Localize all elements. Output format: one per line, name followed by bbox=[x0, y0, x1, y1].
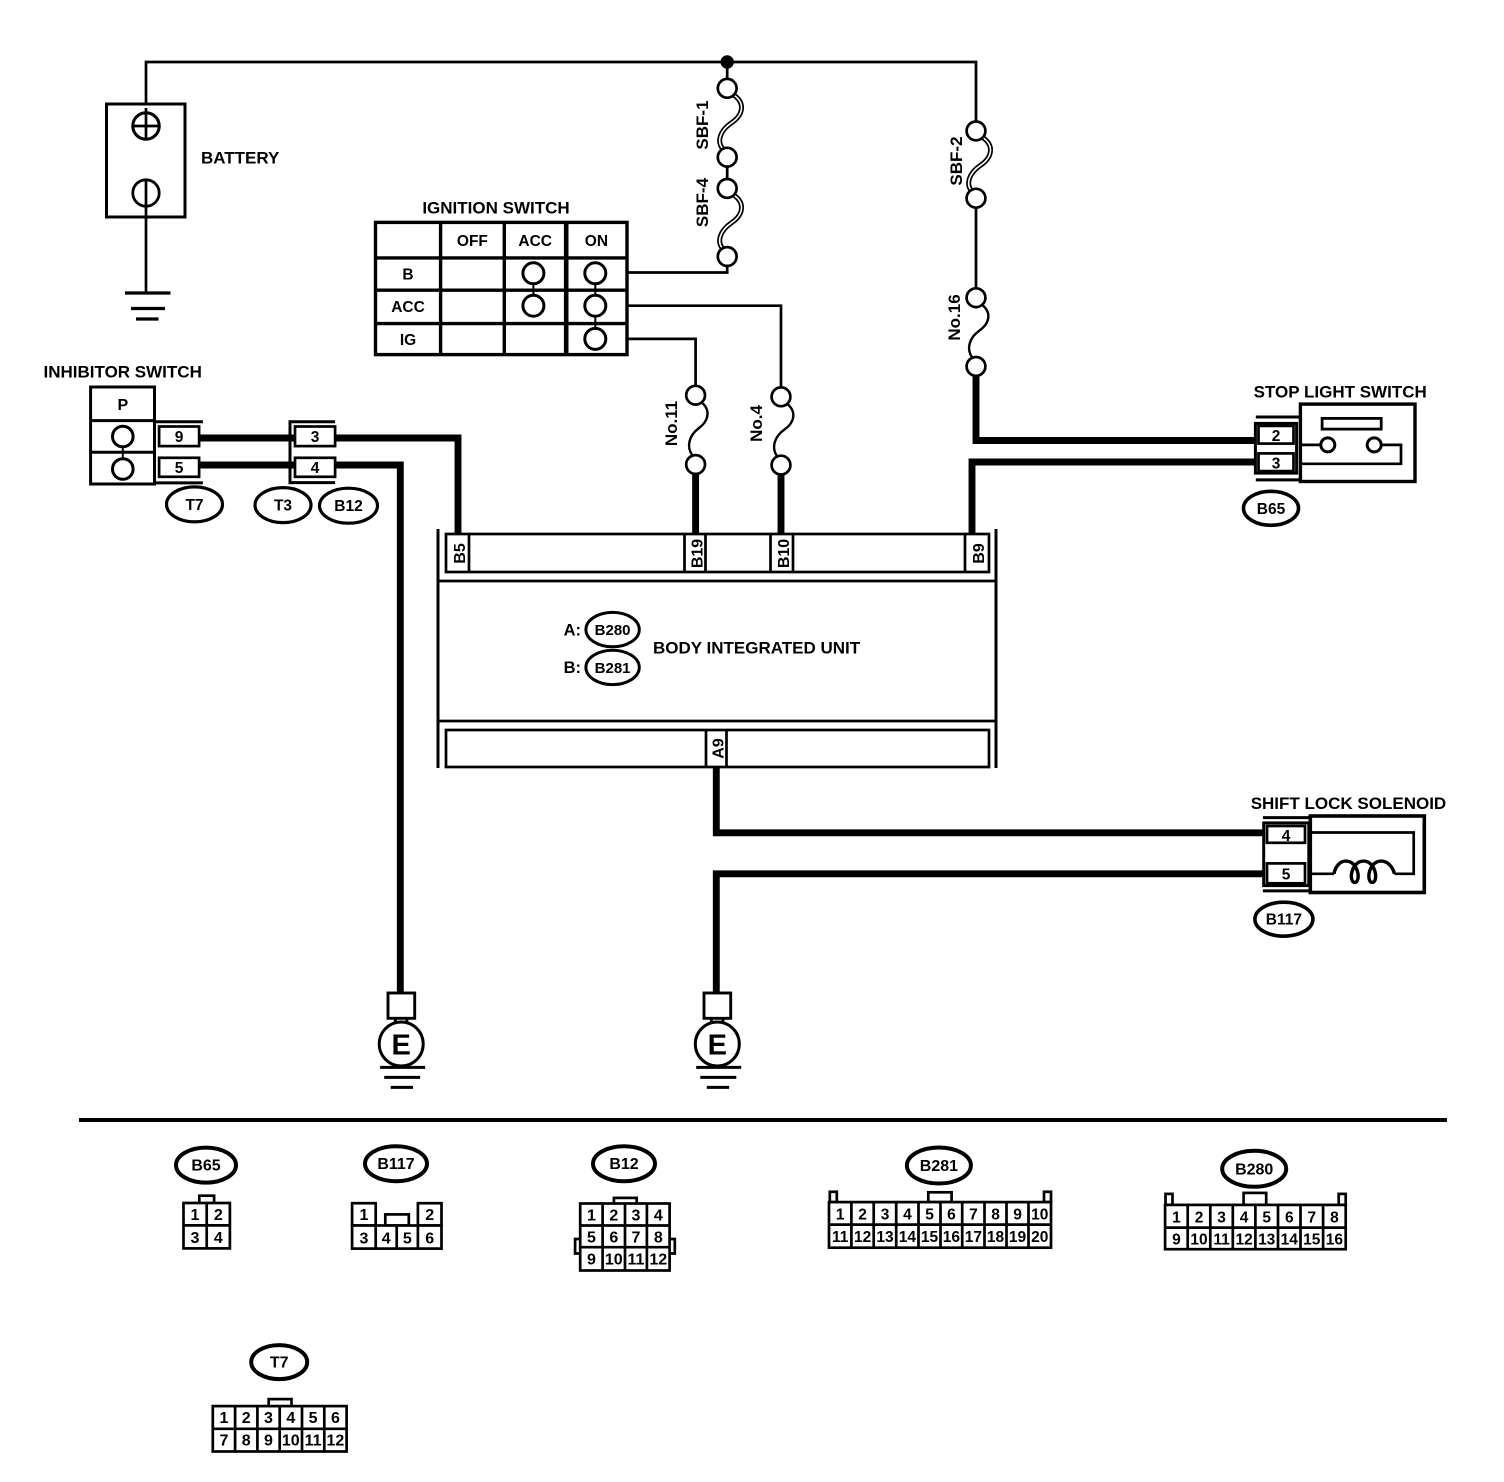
svg-text:4: 4 bbox=[382, 1231, 391, 1248]
svg-text:1: 1 bbox=[359, 1207, 368, 1224]
svg-text:14: 14 bbox=[899, 1229, 917, 1246]
svg-text:6: 6 bbox=[609, 1230, 618, 1247]
svg-text:1: 1 bbox=[191, 1207, 200, 1224]
svg-text:E: E bbox=[708, 1030, 727, 1062]
body integrated unit main box lines bbox=[438, 581, 996, 721]
connector ellipse T7 (bottom) bbox=[251, 1345, 307, 1379]
svg-text:5: 5 bbox=[1282, 867, 1291, 884]
svg-text:20: 20 bbox=[1031, 1229, 1048, 1246]
svg-text:B281: B281 bbox=[595, 660, 631, 677]
svg-text:11: 11 bbox=[1213, 1232, 1230, 1249]
svg-text:2: 2 bbox=[242, 1410, 251, 1427]
svg-text:ACC: ACC bbox=[391, 299, 425, 316]
svg-text:T3: T3 bbox=[274, 498, 292, 515]
svg-text:5: 5 bbox=[175, 460, 184, 477]
svg-text:B12: B12 bbox=[334, 498, 362, 515]
svg-text:T7: T7 bbox=[270, 1355, 289, 1372]
svg-text:9: 9 bbox=[587, 1252, 596, 1269]
svg-text:11: 11 bbox=[628, 1252, 645, 1269]
svg-text:ON: ON bbox=[585, 233, 608, 250]
svg-text:A:: A: bbox=[564, 622, 581, 640]
svg-text:B9: B9 bbox=[971, 543, 988, 564]
svg-text:4: 4 bbox=[1240, 1210, 1249, 1227]
svg-text:B5: B5 bbox=[452, 543, 469, 564]
pin B10 label bbox=[776, 539, 793, 568]
svg-text:3: 3 bbox=[311, 429, 320, 446]
svg-text:12: 12 bbox=[854, 1229, 871, 1246]
svg-text:T7: T7 bbox=[185, 497, 203, 514]
svg-text:6: 6 bbox=[425, 1231, 434, 1248]
connector pinout B117 bbox=[352, 1203, 441, 1248]
svg-text:12: 12 bbox=[1235, 1232, 1252, 1249]
wire SBF-1 to SBF-4 link bbox=[726, 165, 729, 181]
svg-text:INHIBITOR SWITCH: INHIBITOR SWITCH bbox=[44, 363, 202, 382]
svg-text:2: 2 bbox=[609, 1208, 618, 1225]
svg-text:4: 4 bbox=[1282, 828, 1291, 845]
svg-text:B65: B65 bbox=[191, 1158, 220, 1175]
svg-text:12: 12 bbox=[649, 1252, 667, 1269]
svg-text:SBF-2: SBF-2 bbox=[947, 136, 966, 185]
svg-text:8: 8 bbox=[242, 1433, 251, 1450]
wire fuse No.11 to B19 (thick) bbox=[692, 471, 699, 537]
connector T3/B12 bbox=[290, 420, 335, 484]
ignition switch table bbox=[376, 199, 628, 355]
node junction dot at top rail bbox=[721, 55, 734, 68]
connector ellipse B281 (unit) bbox=[586, 650, 639, 684]
svg-text:B281: B281 bbox=[920, 1158, 958, 1175]
connector ellipse B280 (unit) bbox=[586, 612, 639, 646]
svg-text:B117: B117 bbox=[377, 1156, 414, 1173]
connector pinout B281 bbox=[829, 1192, 1051, 1248]
svg-text:B: B bbox=[402, 267, 413, 284]
svg-text:9: 9 bbox=[175, 429, 184, 446]
svg-text:5: 5 bbox=[925, 1207, 934, 1224]
connector T7 at inhibitor switch bbox=[155, 422, 203, 483]
svg-text:3: 3 bbox=[632, 1208, 641, 1225]
fuse No.4 bbox=[747, 387, 793, 474]
ground E left bbox=[379, 993, 425, 1087]
pin B19 label bbox=[690, 539, 707, 568]
wire SBF-1 top stub from junction bbox=[726, 62, 729, 81]
fuse SBF-1 bbox=[693, 79, 742, 167]
svg-text:2: 2 bbox=[858, 1207, 867, 1224]
connector B65 pins at stop light switch bbox=[1255, 417, 1300, 480]
svg-text:BODY INTEGRATED UNIT: BODY INTEGRATED UNIT bbox=[653, 639, 861, 658]
svg-text:9: 9 bbox=[1013, 1207, 1022, 1224]
svg-text:2: 2 bbox=[1195, 1210, 1204, 1227]
svg-text:5: 5 bbox=[309, 1410, 318, 1427]
wire inhibitor pin 9 to T3 pin 3 to B5 (thick) bbox=[197, 438, 458, 537]
svg-text:5: 5 bbox=[1262, 1210, 1271, 1227]
svg-text:7: 7 bbox=[969, 1207, 978, 1224]
pin B9 label bbox=[971, 543, 988, 564]
svg-text:10: 10 bbox=[1031, 1207, 1048, 1224]
svg-text:13: 13 bbox=[876, 1229, 894, 1246]
svg-text:3: 3 bbox=[264, 1410, 273, 1427]
svg-text:IGNITION SWITCH: IGNITION SWITCH bbox=[422, 199, 569, 218]
wire SBF-4 to ignition switch B row bbox=[622, 263, 727, 273]
svg-text:11: 11 bbox=[832, 1229, 849, 1246]
svg-text:B280: B280 bbox=[595, 622, 631, 639]
fuse No.11 bbox=[662, 386, 708, 474]
svg-text:6: 6 bbox=[331, 1410, 340, 1427]
svg-text:4: 4 bbox=[903, 1207, 912, 1224]
shift lock solenoid bbox=[1251, 794, 1447, 893]
connector ellipse T3 bbox=[255, 488, 311, 523]
wire A9 to shift lock solenoid pin 4 (thick) bbox=[716, 765, 1266, 833]
body integrated unit bottom connector strip bbox=[446, 730, 989, 767]
label B: bbox=[564, 659, 581, 677]
ground below battery bbox=[125, 293, 171, 319]
svg-text:6: 6 bbox=[1285, 1210, 1294, 1227]
battery label bbox=[201, 149, 280, 168]
svg-text:11: 11 bbox=[305, 1433, 322, 1450]
svg-text:A9: A9 bbox=[711, 738, 728, 759]
svg-text:1: 1 bbox=[587, 1208, 596, 1225]
pin B5 label bbox=[452, 543, 469, 564]
svg-text:5: 5 bbox=[587, 1230, 596, 1247]
svg-text:4: 4 bbox=[311, 460, 320, 477]
svg-text:4: 4 bbox=[214, 1230, 223, 1247]
connector ellipse B65 (bottom) bbox=[176, 1148, 236, 1183]
svg-text:No.11: No.11 bbox=[662, 401, 681, 446]
fuse No.16 bbox=[945, 288, 988, 375]
connector ellipse B280 (bottom) bbox=[1222, 1151, 1286, 1187]
svg-text:1: 1 bbox=[220, 1410, 229, 1427]
wire SBF-2 to No.16 link bbox=[975, 207, 978, 290]
svg-text:3: 3 bbox=[191, 1230, 200, 1247]
connector ellipse B117 (top) bbox=[1255, 902, 1313, 936]
wire ignition ACC row to fuse No.4 bbox=[622, 306, 781, 389]
connector pinout T7 bbox=[213, 1399, 347, 1451]
svg-text:B280: B280 bbox=[1235, 1161, 1273, 1178]
svg-text:7: 7 bbox=[632, 1230, 641, 1247]
svg-text:BATTERY: BATTERY bbox=[201, 149, 280, 168]
svg-text:3: 3 bbox=[1272, 456, 1281, 473]
label A: bbox=[564, 622, 581, 640]
svg-text:8: 8 bbox=[654, 1230, 663, 1247]
connector ellipse B12 (bottom) bbox=[593, 1146, 655, 1181]
fuse SBF-2 bbox=[947, 121, 991, 207]
svg-text:9: 9 bbox=[264, 1433, 273, 1450]
svg-text:1: 1 bbox=[1172, 1210, 1181, 1227]
ground E right bbox=[695, 993, 741, 1087]
svg-text:SBF-1: SBF-1 bbox=[693, 100, 712, 149]
connector ellipse B65 (top) bbox=[1244, 491, 1299, 525]
svg-text:8: 8 bbox=[1330, 1210, 1339, 1227]
svg-text:STOP LIGHT SWITCH: STOP LIGHT SWITCH bbox=[1254, 383, 1427, 402]
separator line bbox=[79, 1118, 1447, 1122]
svg-text:ACC: ACC bbox=[518, 233, 552, 250]
svg-text:4: 4 bbox=[286, 1410, 295, 1427]
wire inhibitor pin 5 to T3 pin 4 to left ground (thick) bbox=[197, 465, 400, 995]
svg-text:10: 10 bbox=[282, 1433, 300, 1450]
wire shift lock solenoid pin 5 to right ground (thick) bbox=[716, 874, 1266, 995]
svg-text:19: 19 bbox=[1009, 1229, 1027, 1246]
svg-text:10: 10 bbox=[605, 1252, 623, 1269]
wire fuse No.4 to B10 (thick) bbox=[778, 472, 785, 537]
inhibitor switch bbox=[44, 363, 202, 485]
svg-text:7: 7 bbox=[220, 1433, 229, 1450]
body integrated unit right edge bbox=[995, 529, 998, 768]
svg-text:B10: B10 bbox=[776, 539, 793, 568]
svg-text:2: 2 bbox=[214, 1207, 223, 1224]
svg-text:B19: B19 bbox=[690, 539, 707, 568]
svg-text:No.16: No.16 bbox=[945, 294, 964, 340]
svg-text:6: 6 bbox=[947, 1207, 956, 1224]
connector pinout B12 bbox=[575, 1198, 675, 1271]
wire No.16 to stop light switch pin 2 (thick) bbox=[976, 374, 1262, 441]
svg-text:B12: B12 bbox=[609, 1156, 638, 1173]
svg-text:16: 16 bbox=[1326, 1232, 1344, 1249]
svg-text:SHIFT LOCK SOLENOID: SHIFT LOCK SOLENOID bbox=[1251, 794, 1447, 813]
svg-text:15: 15 bbox=[921, 1229, 939, 1246]
wire stop light switch pin 3 to B9 (thick) bbox=[972, 462, 1262, 537]
connector ellipse T7 bbox=[167, 487, 223, 522]
svg-text:P: P bbox=[117, 397, 128, 414]
pin A9 label bbox=[711, 738, 728, 759]
svg-text:E: E bbox=[392, 1030, 411, 1062]
svg-text:OFF: OFF bbox=[457, 233, 488, 250]
svg-text:15: 15 bbox=[1303, 1232, 1321, 1249]
wire battery positive to top rail and SBF-2 drop bbox=[146, 62, 976, 123]
svg-text:B:: B: bbox=[564, 659, 581, 677]
svg-text:2: 2 bbox=[1272, 428, 1281, 445]
svg-text:3: 3 bbox=[1217, 1210, 1226, 1227]
svg-text:10: 10 bbox=[1190, 1232, 1207, 1249]
svg-text:B117: B117 bbox=[1266, 912, 1302, 929]
svg-text:16: 16 bbox=[943, 1229, 961, 1246]
svg-text:7: 7 bbox=[1307, 1210, 1316, 1227]
svg-text:12: 12 bbox=[327, 1433, 345, 1450]
svg-text:2: 2 bbox=[425, 1207, 434, 1224]
stop light switch bbox=[1254, 383, 1427, 482]
svg-text:IG: IG bbox=[400, 332, 416, 349]
svg-text:13: 13 bbox=[1258, 1232, 1276, 1249]
svg-text:5: 5 bbox=[403, 1231, 412, 1248]
svg-text:3: 3 bbox=[359, 1231, 368, 1248]
connector ellipse B281 (bottom) bbox=[907, 1148, 971, 1184]
body integrated unit label bbox=[653, 639, 861, 658]
svg-text:8: 8 bbox=[991, 1207, 1000, 1224]
svg-text:1: 1 bbox=[836, 1207, 845, 1224]
battery bbox=[107, 104, 186, 293]
fuse SBF-4 bbox=[693, 177, 742, 265]
connector ellipse B117 (bottom) bbox=[365, 1146, 427, 1181]
svg-text:4: 4 bbox=[654, 1208, 663, 1225]
connector pinout B65 bbox=[184, 1196, 230, 1249]
svg-text:14: 14 bbox=[1281, 1232, 1299, 1249]
body integrated unit left edge bbox=[437, 529, 440, 768]
connector ellipse B12 bbox=[320, 488, 378, 523]
body integrated unit top connector strip bbox=[446, 534, 989, 572]
svg-text:18: 18 bbox=[987, 1229, 1005, 1246]
svg-text:No.4: No.4 bbox=[747, 405, 766, 442]
svg-text:3: 3 bbox=[881, 1207, 890, 1224]
svg-text:SBF-4: SBF-4 bbox=[693, 177, 712, 227]
connector pinout B280 bbox=[1165, 1193, 1346, 1249]
wire ignition IG row to fuse No.11 bbox=[622, 339, 696, 388]
svg-text:9: 9 bbox=[1172, 1232, 1181, 1249]
connector B117 pins at solenoid bbox=[1263, 818, 1310, 891]
svg-text:17: 17 bbox=[965, 1229, 982, 1246]
svg-text:B65: B65 bbox=[1257, 501, 1286, 518]
